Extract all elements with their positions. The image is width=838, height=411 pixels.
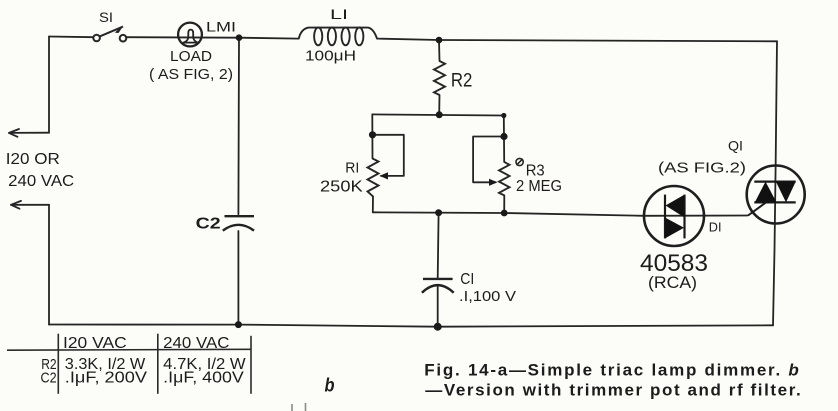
capacitor C2 <box>223 216 254 230</box>
svg-text:240 VAC: 240 VAC <box>8 173 74 190</box>
wire bottom bus of pot network <box>373 211 504 214</box>
label LOAD <box>170 49 212 65</box>
caption line 1 <box>424 361 799 380</box>
resistor R2 <box>434 61 445 95</box>
svg-text:b: b <box>325 376 335 397</box>
svg-text:.I,100 V: .I,100 V <box>459 288 516 305</box>
wire R1 wiper loop <box>373 135 404 176</box>
potentiometer R1 <box>368 159 379 197</box>
figure sub-label b <box>325 376 335 397</box>
svg-text:LI: LI <box>330 6 348 22</box>
wire capacitor C2 to bottom wire <box>237 231 239 325</box>
wire pot R3 bottom lead <box>503 195 505 213</box>
svg-text:2 MEG: 2 MEG <box>516 178 562 195</box>
svg-text:250K: 250K <box>320 179 363 196</box>
wire R3 wiper loop <box>473 137 504 183</box>
label R1 <box>345 160 359 177</box>
label R2 <box>451 71 473 92</box>
wire resistor R2 to top bus <box>438 95 440 115</box>
label Q1 <box>728 138 743 154</box>
svg-text:C2: C2 <box>196 216 221 233</box>
label R3 <box>526 163 545 180</box>
label 240 VAC <box>8 173 74 190</box>
node C (R2/top bus junction) <box>436 111 443 118</box>
table header 240 VAC <box>163 335 229 352</box>
svg-text:DI: DI <box>709 220 722 235</box>
label 100uH <box>305 48 356 65</box>
svg-text:C2: C2 <box>41 369 57 386</box>
switch S1 <box>93 26 126 41</box>
wire source top lead horizontal with arrow <box>9 129 49 137</box>
table cell 3.3K,1/2W <box>65 356 146 373</box>
label (AS FIG, 2) <box>149 67 233 83</box>
svg-text:—Version with trimmer pot and: —Version with trimmer pot and rf filter. <box>425 381 800 400</box>
table row label R2 <box>41 356 56 373</box>
label C2 <box>196 216 221 233</box>
wire left vertical lower (source bottom lead to bottom wire) <box>48 205 50 325</box>
svg-text:R2: R2 <box>451 71 473 92</box>
svg-text:RI: RI <box>345 160 359 177</box>
table cell .1uF,400V <box>163 370 244 387</box>
R3 wiper arrowhead <box>489 179 498 186</box>
table cell .1uF,200V <box>65 370 148 387</box>
svg-text:(AS FIG.2): (AS FIG.2) <box>658 161 746 177</box>
component value table <box>7 334 251 394</box>
label 120 OR <box>6 151 60 168</box>
svg-text:LMI: LMI <box>206 20 236 35</box>
label L1 <box>330 6 348 22</box>
table cell 4.7K,1/2W <box>163 356 246 373</box>
svg-text:40583: 40583 <box>640 250 708 277</box>
label D1 <box>709 220 722 235</box>
svg-text:I20 OR: I20 OR <box>6 151 60 168</box>
svg-text:(RCA): (RCA) <box>648 274 697 292</box>
svg-text:SI: SI <box>99 9 113 25</box>
wire right vertical through triac Q1 to bottom wire <box>773 41 777 325</box>
svg-text:R3: R3 <box>526 163 545 180</box>
node J (C2 bottom junction) <box>235 321 242 328</box>
label (AS FIG.2) <box>658 161 746 177</box>
label LM1 <box>206 20 236 35</box>
label 250K <box>320 179 363 196</box>
label (RCA) <box>648 274 697 292</box>
wire L1-node branch down to resistor R2 <box>438 40 441 61</box>
svg-text:( AS FIG, 2): ( AS FIG, 2) <box>149 67 233 83</box>
label 2 MEG <box>516 178 562 195</box>
node G (bottom bus / C1 junction) <box>435 209 442 216</box>
wire top bus of pot network <box>372 114 504 115</box>
triac Q1 <box>747 166 805 224</box>
table header 120 VAC <box>63 335 127 352</box>
node B (L1/R2 junction) <box>436 37 443 44</box>
wire source bottom lead horizontal with arrow <box>11 201 49 209</box>
node D (top bus right corner) <box>501 113 506 118</box>
wire gate bus from pot network through diac D1 to triac Q1 <box>504 213 748 216</box>
label 40583 <box>640 250 708 277</box>
lamp LM1 <box>178 23 202 47</box>
svg-text:.IμF, 200V: .IμF, 200V <box>65 370 148 387</box>
svg-text:.IμF, 400V: .IμF, 400V <box>163 370 244 387</box>
svg-text:CI: CI <box>460 271 474 288</box>
table row label C2 <box>41 369 57 386</box>
potentiometer R3 <box>499 162 510 196</box>
svg-text:100μH: 100μH <box>305 48 356 65</box>
node A (lamp/C2 junction) <box>236 34 243 41</box>
wire center branch down to capacitor C1 <box>437 213 440 279</box>
svg-text:240 VAC: 240 VAC <box>163 335 229 352</box>
svg-text:LOAD: LOAD <box>170 49 212 65</box>
wire pot R1 bottom lead <box>372 196 374 212</box>
inductor L1 <box>299 28 377 46</box>
node I (C1 bottom junction) <box>434 323 442 331</box>
label S1 <box>99 9 113 25</box>
wire right branch down to pot R3 <box>503 116 505 162</box>
R3 trimmer screw symbol <box>516 158 523 165</box>
wire inductor L1 to top-right corner <box>377 39 777 42</box>
node F (R3 wiper tie) <box>500 133 507 140</box>
caption line 2 <box>425 381 800 400</box>
label .1,100V <box>459 288 516 305</box>
R1 wiper arrowhead <box>380 172 389 179</box>
wire bottom horizontal <box>49 325 773 327</box>
wire switch S1 to lamp LM1 <box>127 37 299 38</box>
node E (R1 wiper tie) <box>369 131 376 138</box>
wire top-left horizontal (left corner to switch S1) <box>49 36 93 39</box>
wire left branch down to pot R1 <box>371 114 373 158</box>
node H (bottom bus right corner) <box>501 210 508 217</box>
svg-text:Fig. 14-a—Simple triac lamp di: Fig. 14-a—Simple triac lamp dimmer. b <box>424 361 799 380</box>
wire lamp-node branch down to capacitor C2 <box>237 38 240 215</box>
svg-text:I20 VAC: I20 VAC <box>63 335 127 352</box>
capacitor C1 <box>422 279 454 293</box>
wire capacitor C1 to bottom wire <box>437 287 439 327</box>
label C1 <box>460 271 474 288</box>
wire left vertical upper (source top lead) <box>48 37 50 133</box>
diac D1 <box>644 186 704 246</box>
svg-text:QI: QI <box>728 138 743 154</box>
scan artifact ticks bottom edge <box>292 403 306 411</box>
